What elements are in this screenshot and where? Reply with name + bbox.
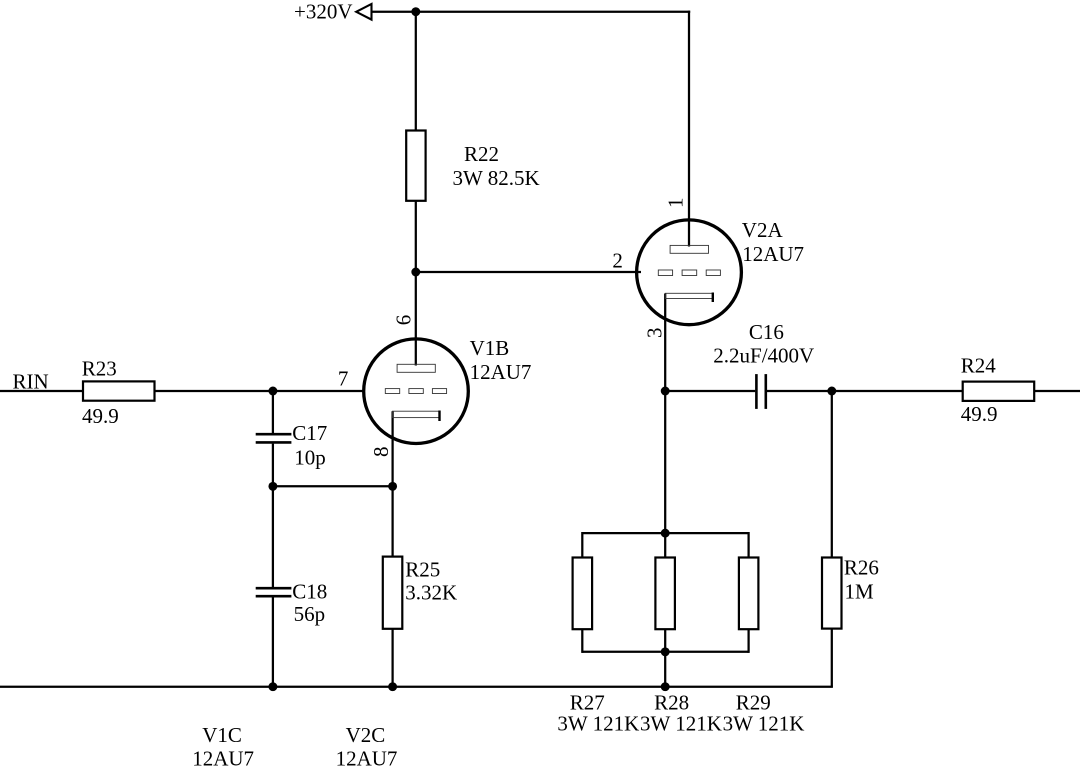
resistor R24 body <box>963 382 1034 401</box>
wire V2A cathode pin 3 down to output node <box>664 294 666 392</box>
wire C18 top stub <box>272 486 274 587</box>
wire output node to C16 <box>665 390 755 392</box>
svg-text:10p: 10p <box>294 446 326 470</box>
svg-text:3W 121K: 3W 121K <box>723 712 805 736</box>
wire R24 to right edge <box>1034 390 1080 392</box>
svg-text:1M: 1M <box>845 580 875 604</box>
resistor R23 body <box>83 381 155 400</box>
svg-text:49.9: 49.9 <box>961 402 998 426</box>
wire R29 top stub <box>747 532 749 558</box>
node junction at top rail / R22 <box>411 7 420 16</box>
svg-text:12AU7: 12AU7 <box>742 242 804 266</box>
wire R23 to V1B grid pin 7 <box>155 390 365 392</box>
wire R29 bottom stub <box>747 629 749 653</box>
node junction parallel bottom rail <box>661 647 670 656</box>
svg-text:3W 121K: 3W 121K <box>557 712 639 736</box>
svg-text:V1C: V1C <box>202 723 242 747</box>
svg-text:12AU7: 12AU7 <box>470 360 532 384</box>
wire plate node to V2A grid pin 2 <box>416 271 641 273</box>
svg-text:V1B: V1B <box>470 336 510 360</box>
svg-text:3W 121K: 3W 121K <box>640 712 722 736</box>
wire C17 bottom stub <box>272 444 274 487</box>
resistor R26 body <box>822 558 842 629</box>
wire R26 node to R24 <box>832 390 963 392</box>
wire output node down to parallel resistor top rail <box>664 391 666 533</box>
V2A grid dashes <box>658 270 672 276</box>
wire R28 bottom stub <box>664 629 666 652</box>
svg-text:C17: C17 <box>292 421 327 445</box>
wire R27 top stub <box>581 532 583 558</box>
svg-text:C18: C18 <box>292 579 327 603</box>
wire parallel resistor top rail <box>582 532 748 534</box>
svg-text:2.2uF/400V: 2.2uF/400V <box>713 343 814 367</box>
wire C16 to R26 node <box>767 390 832 392</box>
V1B cathode tick <box>438 411 440 422</box>
wire R22 bottom to plate node <box>415 201 417 272</box>
svg-text:R24: R24 <box>961 354 997 378</box>
node junction V1B cathode / R25 <box>388 482 397 491</box>
wire R27 bottom stub <box>581 629 583 653</box>
wire V2A plate pin 1 <box>688 11 690 247</box>
resistor R28 body <box>655 558 675 630</box>
svg-text:R22: R22 <box>464 142 499 166</box>
V2A anode plate <box>670 245 708 253</box>
node junction R22 / V1B plate / V2A grid <box>411 268 420 277</box>
wire R26 top stub <box>831 391 833 558</box>
wire R25 top stub <box>391 486 393 556</box>
wire cathode row C17 to V1B pin 8 <box>273 485 393 487</box>
V1B grid dashes <box>385 389 399 394</box>
wire V1B plate pin 6 <box>415 272 417 366</box>
svg-text:6: 6 <box>392 315 416 326</box>
svg-text:R25: R25 <box>405 557 440 581</box>
svg-text:7: 7 <box>338 367 349 391</box>
wire R22 top stub <box>415 12 417 131</box>
wire parallel resistor bottom rail <box>582 651 748 653</box>
wire V1B cathode pin 8 <box>391 411 393 486</box>
capacitor C16 plates <box>755 374 758 409</box>
node junction C18 / bottom rail <box>268 682 277 691</box>
triode V2A envelope <box>637 220 742 325</box>
svg-text:V2C: V2C <box>346 723 386 747</box>
svg-text:2: 2 <box>612 248 623 272</box>
resistor R22 body <box>406 131 425 201</box>
svg-text:V2A: V2A <box>742 218 784 242</box>
node junction R25 / bottom rail <box>388 682 397 691</box>
node junction input / C17 <box>268 387 277 396</box>
wire top rail from +320V port to V2A plate column <box>372 11 691 13</box>
svg-text:RIN: RIN <box>13 369 49 393</box>
wire bottom rail <box>0 686 833 688</box>
node junction C17 bottom / cathode row <box>268 482 277 491</box>
svg-text:C16: C16 <box>749 320 784 344</box>
node junction R28 / bottom rail <box>661 682 670 691</box>
wire C17 top stub <box>272 391 274 433</box>
svg-text:R26: R26 <box>844 556 879 580</box>
V1B cathode <box>393 411 440 417</box>
svg-text:12AU7: 12AU7 <box>192 747 254 771</box>
svg-text:49.9: 49.9 <box>82 404 119 428</box>
svg-text:8: 8 <box>369 447 393 458</box>
wire R25 bottom stub <box>391 629 393 687</box>
svg-text:3: 3 <box>642 328 666 339</box>
svg-text:3.32K: 3.32K <box>405 581 457 605</box>
svg-text:3W 82.5K: 3W 82.5K <box>453 166 540 190</box>
resistor R27 body <box>573 558 593 630</box>
V2A cathode <box>665 293 712 298</box>
resistor R25 body <box>383 557 403 629</box>
V1B anode plate <box>397 364 435 372</box>
wire R28 top stub <box>664 533 666 557</box>
svg-text:56p: 56p <box>294 602 326 626</box>
node junction output / R26 / R24 <box>827 387 836 396</box>
wire C18 bottom stub <box>272 597 274 687</box>
triode V1B envelope <box>364 339 469 444</box>
capacitor C17 plates <box>256 433 292 436</box>
svg-text:R23: R23 <box>82 356 117 380</box>
svg-text:+320V: +320V <box>294 0 353 24</box>
svg-text:1: 1 <box>664 198 688 209</box>
wire RIN to R23 <box>0 390 83 392</box>
resistor R29 body <box>739 558 759 630</box>
node junction C16 left / V2A cathode <box>661 387 670 396</box>
wire R26 bottom stub <box>831 629 833 687</box>
wire R28 node to ground rail <box>664 652 666 687</box>
capacitor C18 plates <box>256 587 292 590</box>
power +320V port triangle <box>356 4 371 20</box>
svg-text:12AU7: 12AU7 <box>336 747 398 771</box>
V2A cathode tick <box>712 293 714 303</box>
node junction parallel top rail <box>661 529 670 538</box>
